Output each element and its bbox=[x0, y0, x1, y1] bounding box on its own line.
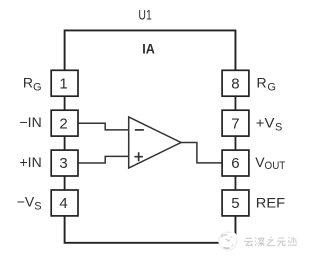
svg-text:REF: REF bbox=[256, 194, 285, 210]
pin 2 box bbox=[51, 110, 78, 136]
pin 1 box bbox=[51, 70, 78, 96]
wire pin2-pin3 connector bbox=[64, 136, 66, 150]
svg-text:7: 7 bbox=[231, 115, 239, 132]
pin 5 box bbox=[222, 190, 249, 216]
wire pin 2 to inverting input bbox=[78, 123, 129, 130]
wire pin7-pin6 connector bbox=[234, 136, 236, 150]
svg-text:2: 2 bbox=[59, 115, 67, 132]
pin 7 box bbox=[222, 110, 249, 136]
svg-text:U1: U1 bbox=[138, 6, 152, 22]
char ji bbox=[288, 237, 297, 246]
svg-text:5: 5 bbox=[231, 195, 239, 212]
wire bottom rail connecting pin 4 to pin 5 bbox=[65, 216, 236, 243]
pin 8 box bbox=[222, 70, 249, 96]
watermark text yun shen zhi wu ji bbox=[244, 237, 297, 247]
wire op-amp output to pin 6 bbox=[181, 143, 223, 163]
char wu bbox=[277, 238, 286, 246]
svg-text:1: 1 bbox=[59, 75, 67, 92]
svg-text:4: 4 bbox=[59, 195, 67, 212]
wire top rail connecting pin 1 to pin 8 bbox=[65, 30, 236, 70]
wire pin1-pin2 connector bbox=[64, 96, 66, 110]
wire pin8-pin7 connector bbox=[234, 96, 236, 110]
wire pin 3 to non-inverting input bbox=[78, 156, 129, 163]
svg-text:+IN: +IN bbox=[20, 154, 42, 170]
wire pin3-pin4 connector bbox=[64, 176, 66, 190]
op-amp IA triangle bbox=[129, 117, 181, 168]
svg-text:IA: IA bbox=[142, 41, 155, 57]
pin 3 box bbox=[51, 150, 78, 176]
svg-text:6: 6 bbox=[231, 155, 239, 172]
inverting input minus symbol bbox=[135, 129, 144, 131]
char yun bbox=[244, 238, 254, 245]
pin 4 box bbox=[51, 190, 78, 216]
pin 6 box bbox=[222, 150, 249, 176]
char shen bbox=[255, 238, 264, 247]
non-inverting input plus symbol bbox=[134, 152, 143, 161]
svg-text:−IN: −IN bbox=[20, 114, 42, 130]
svg-text:3: 3 bbox=[59, 155, 67, 172]
watermark icon bbox=[219, 232, 237, 250]
svg-text:8: 8 bbox=[231, 75, 239, 92]
char zhi bbox=[267, 237, 275, 246]
wire pin6-pin5 connector bbox=[234, 176, 236, 190]
